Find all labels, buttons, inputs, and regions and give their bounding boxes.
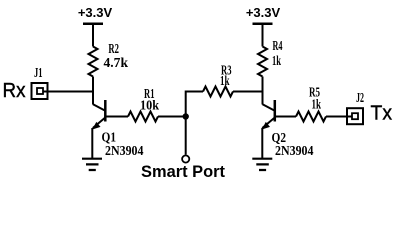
junction node bbox=[183, 113, 189, 119]
connector J2 inner box bbox=[352, 113, 358, 119]
svg-text:4.7k: 4.7k bbox=[104, 56, 129, 71]
wire R3 to Q2 column bbox=[233, 91, 263, 93]
svg-text:R4: R4 bbox=[273, 39, 283, 54]
svg-text:Tx: Tx bbox=[371, 103, 393, 125]
svg-text:R2: R2 bbox=[108, 42, 119, 57]
connector J1 outer box bbox=[32, 83, 48, 99]
transistor Q2 emitter lead with arrow bbox=[262, 118, 275, 129]
power symbol +3.3V (right) T-bar bbox=[253, 23, 273, 26]
wire Q2 base to R5 bbox=[275, 116, 296, 118]
wire R2 bottom to Q1 collector corner bbox=[92, 77, 94, 105]
resistor R1 bbox=[128, 112, 158, 122]
wire power bar to R2 top bbox=[92, 24, 94, 47]
resistor R4 bbox=[258, 47, 267, 77]
svg-text:2N3904: 2N3904 bbox=[105, 144, 144, 159]
resistor R5 bbox=[296, 112, 326, 122]
svg-text:Smart Port: Smart Port bbox=[141, 162, 225, 181]
wire Q1 base to R1 bbox=[105, 116, 128, 118]
svg-text:1k: 1k bbox=[220, 74, 230, 89]
ground (Q2) bbox=[252, 159, 272, 170]
wire R1 to junction bbox=[158, 116, 186, 118]
resistor R3 bbox=[203, 87, 233, 97]
svg-text:+3.3V: +3.3V bbox=[78, 5, 113, 20]
wire R4 bottom to Q2 collector corner bbox=[262, 77, 264, 105]
connector J1 inner box bbox=[37, 88, 43, 94]
svg-text:Rx: Rx bbox=[3, 80, 26, 102]
transistor Q2 collector lead bbox=[263, 104, 275, 111]
svg-text:2N3904: 2N3904 bbox=[275, 144, 314, 159]
wire junction up and over to R3 bbox=[186, 92, 203, 117]
transistor Q1 base bar bbox=[104, 100, 107, 122]
resistor R2 bbox=[89, 47, 98, 77]
wire junction down to smart port terminal bbox=[185, 117, 187, 155]
svg-text:J2: J2 bbox=[356, 91, 364, 106]
svg-text:1k: 1k bbox=[312, 98, 322, 113]
svg-text:1k: 1k bbox=[272, 54, 281, 69]
wire R5 to J2 bbox=[326, 116, 352, 118]
wire J1 to collector column bbox=[43, 91, 93, 93]
ground (Q1) bbox=[82, 159, 102, 170]
transistor Q1 emitter lead with arrow bbox=[93, 118, 106, 129]
terminal circle Smart Port bbox=[182, 155, 189, 162]
svg-text:10k: 10k bbox=[140, 99, 159, 114]
power symbol +3.3V (left) T-bar bbox=[83, 23, 103, 26]
connector J2 outer box bbox=[347, 108, 363, 124]
svg-text:J1: J1 bbox=[34, 66, 43, 81]
transistor Q1 collector lead bbox=[93, 104, 105, 111]
wire Q2 emitter to ground bbox=[261, 128, 263, 159]
wire Q1 emitter to ground bbox=[91, 128, 93, 159]
wire power bar to R4 top bbox=[262, 24, 264, 47]
svg-text:+3.3V: +3.3V bbox=[246, 5, 281, 20]
transistor Q2 base bar bbox=[274, 100, 277, 122]
